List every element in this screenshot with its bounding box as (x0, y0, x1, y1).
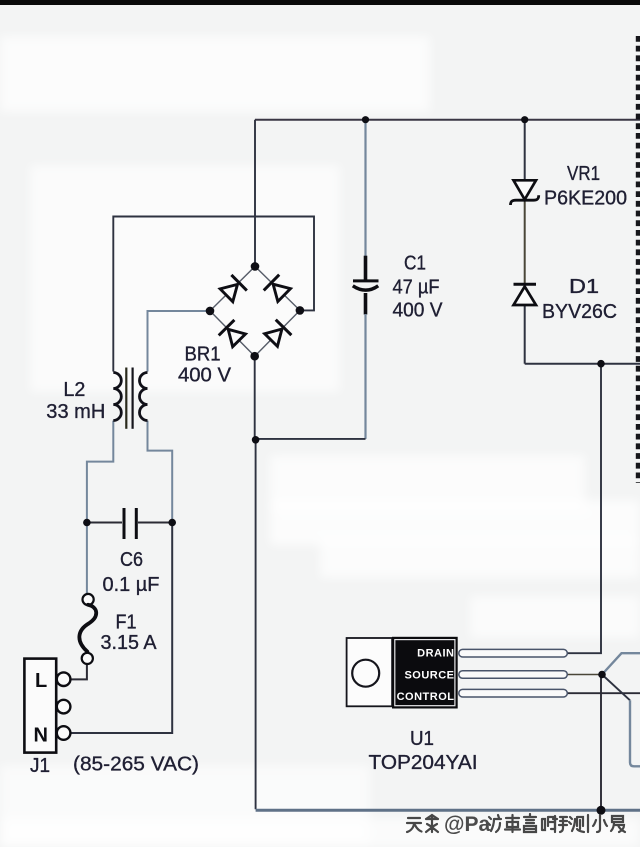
svg-text:P6KE200: P6KE200 (544, 188, 627, 210)
svg-text:0.1 µF: 0.1 µF (103, 574, 160, 596)
svg-text:C1: C1 (404, 253, 426, 275)
svg-text:J1: J1 (30, 755, 50, 777)
svg-text:400 V: 400 V (393, 300, 444, 322)
svg-text:L: L (35, 670, 47, 692)
svg-text:D1: D1 (569, 276, 599, 298)
svg-text:SOURCE: SOURCE (404, 670, 454, 682)
svg-text:33 mH: 33 mH (46, 401, 105, 423)
svg-text:@Pa: @Pa (444, 813, 490, 836)
svg-text:VR1: VR1 (567, 163, 600, 185)
svg-text:(85-265 VAC): (85-265 VAC) (73, 754, 199, 776)
svg-text:BR1: BR1 (185, 344, 221, 366)
svg-text:C6: C6 (120, 549, 143, 571)
svg-text:CONTROL: CONTROL (397, 691, 455, 703)
svg-text:L2: L2 (63, 379, 85, 401)
svg-text:U1: U1 (410, 728, 434, 750)
svg-text:3.15 A: 3.15 A (101, 632, 158, 654)
svg-text:TOP204YAI: TOP204YAI (369, 752, 478, 774)
svg-text:F1: F1 (116, 612, 137, 634)
svg-text:DRAIN: DRAIN (417, 648, 454, 660)
svg-text:N: N (34, 725, 48, 747)
svg-text:BYV26C: BYV26C (542, 301, 617, 323)
svg-text:47 µF: 47 µF (393, 277, 440, 299)
svg-text:400 V: 400 V (178, 365, 232, 387)
